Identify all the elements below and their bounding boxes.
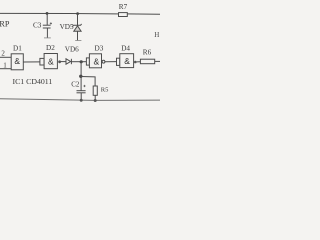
svg-text:&: & [48, 56, 54, 66]
node: C3 tap junction [46, 12, 49, 15]
svg-text:R7: R7 [119, 3, 128, 11]
svg-text:R5: R5 [101, 87, 109, 94]
NAND gate D3 [89, 54, 101, 68]
wire: R6 to right edge [155, 60, 160, 62]
wire: D1 output to D2 [23, 61, 40, 63]
NAND gate D1 [11, 54, 23, 70]
wire: C3 top lead [46, 13, 48, 25]
node: VD5 tap junction [76, 12, 79, 15]
wire: C2 to bottom rail [80, 93, 82, 100]
wire: D1 input pin 1 [0, 68, 11, 70]
svg-text:VD6: VD6 [65, 45, 79, 53]
wire: D4 to R6 [137, 61, 141, 63]
wire: D2 bubble to VD6 [61, 61, 66, 63]
wire: junction down to C2 [80, 76, 82, 90]
resistor R5 [93, 86, 97, 95]
wire: R5 to bottom rail [94, 95, 96, 100]
D3 output inverter bubble [102, 60, 105, 63]
svg-text:C3: C3 [33, 22, 42, 30]
svg-text:RP: RP [0, 19, 10, 28]
capacitor C2 [77, 85, 86, 93]
NAND gate D4 [120, 54, 134, 68]
D4 tied-input connector [117, 58, 120, 65]
svg-text:2: 2 [1, 49, 5, 57]
D4 output inverter bubble [134, 61, 137, 64]
node: C2/R5 branch junction [79, 75, 82, 78]
svg-text:D3: D3 [95, 44, 104, 52]
resistor R7 [119, 13, 128, 17]
zener diode VD5 [72, 14, 81, 41]
wire: VD6 to D3 [71, 61, 86, 63]
diode VD6 [66, 59, 71, 64]
svg-text:1: 1 [3, 61, 7, 69]
wire: D3 to D4 [105, 61, 117, 63]
svg-text:IC1 CD4011: IC1 CD4011 [13, 77, 53, 86]
bottom ground rail wire [0, 99, 160, 101]
wire: branch over to R5 [81, 77, 95, 87]
NAND gate D2 [44, 54, 57, 69]
svg-text:R6: R6 [143, 48, 152, 56]
capacitor C3 [43, 22, 52, 28]
svg-text:&: & [93, 57, 99, 67]
D2 output inverter bubble [58, 60, 61, 63]
node: R5 ground junction [94, 99, 97, 102]
top supply wire [0, 12, 160, 15]
node: C2 ground junction [80, 99, 83, 102]
svg-text:VD5: VD5 [60, 23, 74, 31]
svg-text:D4: D4 [121, 44, 130, 52]
svg-text:H: H [154, 31, 159, 39]
wire: junction down [80, 62, 82, 77]
svg-text:D1: D1 [13, 44, 22, 52]
svg-text:&: & [124, 56, 130, 66]
svg-text:D2: D2 [46, 44, 55, 52]
D3 tied-input connector [86, 58, 89, 65]
svg-text:C2: C2 [71, 81, 80, 89]
D2 tied-input connector [40, 58, 44, 65]
wire: D1 input pin 2 [0, 56, 11, 58]
wire: C3 bottom lead with cropped stub bar [44, 28, 51, 38]
node: RC junction on signal wire [80, 60, 83, 63]
svg-text:&: & [14, 56, 20, 66]
resistor R6 [140, 59, 154, 64]
